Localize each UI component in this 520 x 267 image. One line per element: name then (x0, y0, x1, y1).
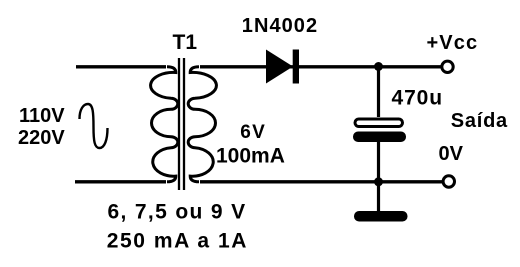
svg-text:6, 7,5 ou 9 V: 6, 7,5 ou 9 V (108, 201, 247, 224)
node junction top (diode cathode / capacitor +) (374, 62, 383, 71)
svg-text:250 mA a 1A: 250 mA a 1A (107, 230, 248, 253)
terminal 0V (443, 176, 454, 187)
ground symbol (354, 211, 408, 222)
svg-text:6V: 6V (240, 122, 266, 143)
terminal +Vcc (442, 61, 453, 72)
diode D1 1N4002 (266, 50, 299, 84)
svg-text:Saída: Saída (451, 110, 508, 132)
svg-text:0V: 0V (439, 143, 464, 165)
transformer T1 secondary winding (188, 67, 216, 182)
svg-text:1N4002: 1N4002 (242, 15, 318, 37)
svg-text:220V: 220V (18, 127, 65, 149)
wire capacitor top lead (377, 67, 380, 118)
transformer T1 core (179, 58, 184, 190)
svg-text:+Vcc: +Vcc (427, 32, 479, 54)
transformer T1 primary winding (151, 67, 178, 182)
wire top-right (transformer secondary to +Vcc terminal) (200, 65, 441, 68)
svg-text:100mA: 100mA (216, 145, 285, 168)
svg-text:110V: 110V (19, 105, 65, 127)
node junction bottom (capacitor - / ground) (374, 177, 383, 186)
wire bottom-left (primary to transformer) (75, 180, 166, 183)
wire ground lead (377, 182, 380, 212)
svg-text:T1: T1 (173, 31, 198, 54)
capacitor C1 470u electrolytic (353, 119, 406, 142)
AC source sine symbol (80, 104, 108, 148)
svg-text:470u: 470u (392, 87, 443, 110)
wire bottom-right (transformer secondary to 0V terminal) (200, 180, 442, 183)
wire top-left (primary to transformer) (76, 65, 166, 68)
wire capacitor bottom lead (377, 142, 380, 182)
